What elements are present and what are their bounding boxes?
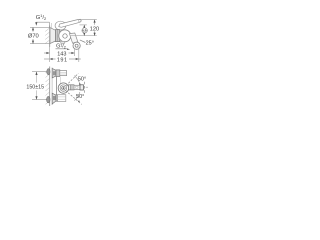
svg-text:150±15: 150±15 (26, 85, 44, 91)
svg-text:25°: 25° (86, 40, 94, 46)
svg-text:50°: 50° (76, 94, 84, 100)
svg-text:191: 191 (57, 57, 68, 63)
svg-text:69: 69 (82, 29, 88, 35)
svg-text:Ø70: Ø70 (28, 34, 39, 40)
svg-text:120: 120 (90, 27, 99, 33)
svg-text:50°: 50° (78, 77, 86, 83)
